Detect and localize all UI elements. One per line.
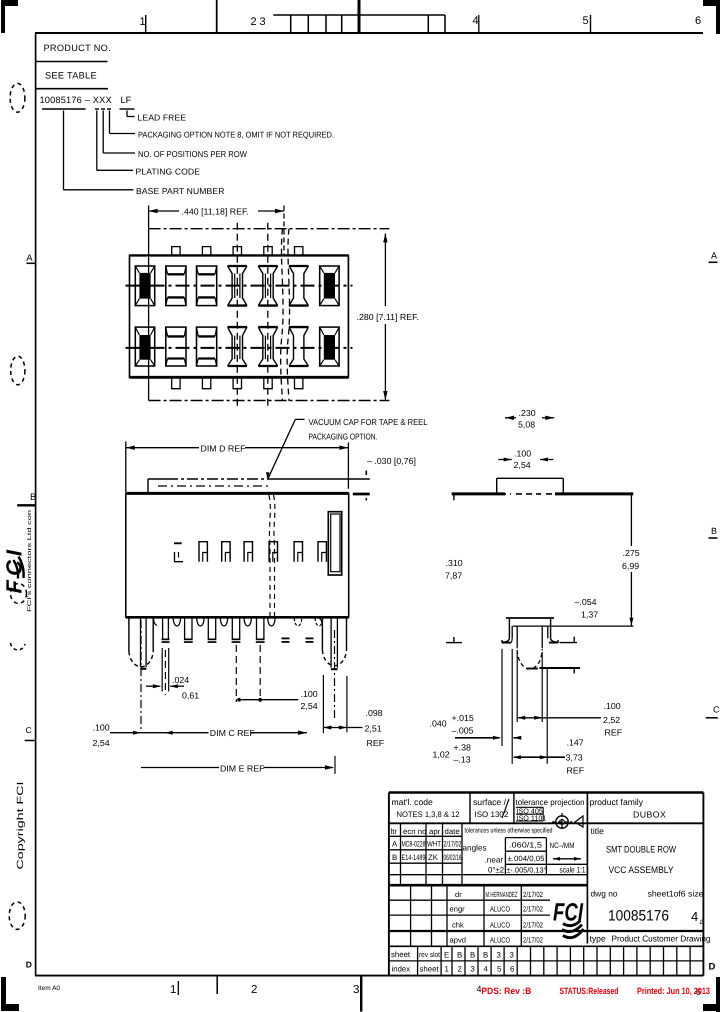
- svg-text:ecn no: ecn no: [403, 827, 427, 836]
- contact pad col 5 row 2: [258, 326, 277, 328]
- side view dim .024 arrows: [146, 685, 160, 687]
- side view scallop d: [319, 618, 322, 626]
- svg-text:1: 1: [140, 16, 146, 28]
- svg-text:E: E: [444, 951, 449, 960]
- product no heading underline: [36, 61, 108, 63]
- top view phantom cap outline: [149, 228, 390, 230]
- svg-text:6,99: 6,99: [622, 561, 639, 571]
- title block col line tolerance: [513, 793, 515, 824]
- corner crop mark top-left: [1, 0, 5, 33]
- svg-text:C: C: [713, 705, 720, 715]
- svg-text:dwg no: dwg no: [591, 889, 618, 899]
- svg-text:–.054: –.054: [575, 597, 597, 607]
- svg-text:MC8-0228: MC8-0228: [402, 840, 426, 849]
- top view row 2 centerline: [126, 347, 353, 349]
- leader base part number: [63, 111, 65, 190]
- top view dim .440 extension right: [283, 206, 285, 257]
- top view tail lug bottom col 5: [264, 377, 272, 388]
- svg-text:5: 5: [497, 965, 502, 974]
- side view dim D line: [126, 447, 199, 449]
- svg-text:B: B: [457, 951, 462, 960]
- svg-text:.280 [7.11] REF.: .280 [7.11] REF.: [357, 312, 419, 322]
- svg-text:ZK: ZK: [428, 853, 439, 862]
- svg-text:DUBOX: DUBOX: [633, 810, 666, 820]
- svg-text:10085176: 10085176: [608, 908, 669, 925]
- svg-text:E14-1489: E14-1489: [402, 853, 426, 862]
- top view body outline: [130, 255, 349, 377]
- svg-text:type: type: [590, 934, 606, 944]
- svg-text:.060/1,5: .060/1,5: [509, 841, 542, 850]
- svg-text:.100: .100: [301, 689, 318, 699]
- side view standoff scallop 4: [244, 618, 251, 626]
- top view break line right: [287, 229, 289, 401]
- svg-text:2,54: 2,54: [514, 460, 531, 470]
- side view dim .030 ticks: [365, 471, 367, 476]
- part number underline lf: [120, 108, 135, 110]
- end view solder foot right: [551, 638, 558, 642]
- leader positions per row: [102, 111, 104, 154]
- side view dim C line: [110, 732, 209, 734]
- svg-text:3,73: 3,73: [566, 753, 583, 763]
- svg-text:.100: .100: [604, 701, 621, 711]
- svg-text:6: 6: [695, 15, 701, 27]
- top view tail lug top col 3: [202, 247, 210, 256]
- side view pin 6: [256, 617, 258, 638]
- end view tower extension verticals: [501, 649, 503, 746]
- side view body bottom bold line: [126, 616, 349, 619]
- top view tail lug bottom col 6: [295, 377, 303, 388]
- side view standoff scallop 3: [220, 618, 227, 626]
- svg-text:– .030 [0,76]: – .030 [0,76]: [367, 456, 416, 466]
- svg-text:ltr: ltr: [391, 827, 398, 836]
- side view dim .098 line: [323, 727, 347, 729]
- svg-text:scale 1:1: scale 1:1: [560, 866, 586, 875]
- svg-text:2/17/02: 2/17/02: [523, 890, 543, 899]
- svg-text:.230: .230: [519, 408, 536, 418]
- svg-text:–.005: –.005: [452, 726, 474, 736]
- svg-text:VACUUM CAP FOR TAPE & REEL: VACUUM CAP FOR TAPE & REEL: [309, 417, 428, 427]
- right zone tick A: [709, 261, 718, 263]
- svg-text:+.38: +.38: [454, 743, 471, 753]
- svg-text:PACKAGING OPTION.: PACKAGING OPTION.: [309, 432, 378, 442]
- contact pad col 6 row 1: [289, 265, 308, 267]
- side view pin 3: [184, 617, 186, 638]
- svg-text:NO. OF POSITIONS PER ROW: NO. OF POSITIONS PER ROW: [138, 149, 248, 159]
- svg-text:tolerances unless otherwise sp: tolerances unless otherwise specified: [465, 827, 553, 835]
- svg-text:3: 3: [497, 951, 501, 960]
- part number underline xxx dashes: [95, 108, 99, 110]
- svg-text:B: B: [470, 951, 475, 960]
- svg-text:REF: REF: [367, 738, 385, 748]
- svg-text:2,52: 2,52: [603, 715, 620, 725]
- svg-text:.147: .147: [567, 738, 584, 748]
- side view body top bold extension: [353, 493, 370, 496]
- side view end latch outer: [328, 512, 341, 575]
- svg-text:ALUCO: ALUCO: [490, 921, 510, 930]
- end view right extension ticks: [559, 642, 577, 644]
- side view scallop b: [294, 618, 301, 626]
- svg-text:4: 4: [473, 15, 479, 27]
- svg-text:D: D: [26, 960, 32, 970]
- svg-text:index: index: [392, 965, 411, 974]
- top view dim .440 extension left: [148, 206, 150, 229]
- svg-text:1: 1: [170, 984, 176, 996]
- svg-text:VCC ASSEMBLY: VCC ASSEMBLY: [609, 864, 675, 875]
- svg-text:.near: .near: [485, 856, 504, 865]
- leader plating code: [96, 111, 98, 171]
- top zone tick 1: [145, 15, 147, 33]
- svg-text:D: D: [709, 962, 716, 973]
- svg-text:B: B: [392, 853, 397, 862]
- svg-text:3: 3: [510, 951, 514, 960]
- side view latch window 5: [269, 542, 277, 562]
- side view body outline: [126, 493, 349, 617]
- svg-text:7,87: 7,87: [445, 571, 462, 581]
- top view tail lug bottom col 4: [233, 377, 241, 388]
- svg-text:tolerance projection: tolerance projection: [516, 797, 585, 807]
- svg-text:LF: LF: [121, 95, 132, 105]
- svg-text:3: 3: [260, 16, 266, 28]
- side view standoff scallop 5: [268, 618, 275, 626]
- vacuum cap strip top line: [148, 478, 167, 480]
- side view end pin right (bullet): [321, 618, 323, 650]
- svg-text:chk: chk: [452, 921, 464, 930]
- top view body bottom bold line: [130, 376, 349, 379]
- top view dim .440 line: [149, 210, 179, 212]
- svg-text:ALUCO: ALUCO: [490, 905, 510, 914]
- end view flange left end tick: [453, 494, 455, 500]
- end view shoulder extension line: [513, 625, 634, 627]
- side view end pin left (bullet): [128, 617, 130, 651]
- top view pitch extension line col 5: [267, 223, 269, 407]
- side view standoff scallop 1: [173, 618, 180, 626]
- svg-text:title: title: [591, 826, 605, 836]
- svg-text:06/02/16: 06/02/16: [444, 853, 462, 862]
- vacuum cap strip left edge: [147, 479, 149, 492]
- svg-text:1: 1: [445, 965, 449, 974]
- side view hidden pin 8 marks: [306, 638, 314, 640]
- svg-text:LEAD FREE: LEAD FREE: [138, 113, 187, 123]
- sheet index table: [389, 960, 704, 962]
- svg-text:C: C: [26, 725, 32, 735]
- end view dim .230 arrows: [505, 417, 516, 419]
- svg-text:A: A: [711, 251, 717, 261]
- svg-text:4: 4: [691, 909, 698, 924]
- svg-text:A: A: [26, 253, 33, 264]
- top view tail lug bottom col 3: [202, 377, 210, 388]
- right zone tick C: [706, 717, 718, 719]
- contact pad col 3 row 2: [197, 327, 217, 366]
- title block col line product family: [586, 793, 588, 944]
- scale reference bar: [273, 14, 445, 16]
- top zone divider line: [216, 0, 218, 33]
- top border line: [35, 32, 703, 34]
- side view latch window 2: [199, 542, 207, 562]
- svg-text:mat'l. code: mat'l. code: [392, 797, 434, 807]
- contact pad col 6 row 2: [289, 326, 308, 328]
- title block outer border: [389, 791, 704, 794]
- svg-text:2/17/02: 2/17/02: [523, 905, 543, 914]
- side view pin 2 extension lines: [161, 648, 163, 691]
- left zone tick A: [27, 262, 36, 264]
- svg-text:2/17/02: 2/17/02: [523, 921, 543, 930]
- svg-text:+.015: +.015: [452, 713, 474, 723]
- svg-text:1,02: 1,02: [433, 750, 450, 760]
- svg-text:sheet1of6 size: sheet1of6 size: [648, 889, 704, 899]
- vacuum cap strip centerline: [158, 485, 272, 487]
- side view dim E line: [141, 767, 219, 769]
- svg-text:Copyright FCI: Copyright FCI: [15, 782, 25, 870]
- svg-text:rev slot: rev slot: [419, 950, 440, 959]
- side view dim D extension right: [347, 443, 349, 489]
- end view solder foot left: [502, 638, 509, 642]
- end view lower extension line right: [539, 667, 580, 669]
- svg-text:angles: angles: [463, 844, 487, 853]
- svg-text:NOTES 1,3,8 & 12: NOTES 1,3,8 & 12: [397, 810, 461, 819]
- title block row line 1: [389, 822, 704, 824]
- rev table grid: [400, 823, 402, 885]
- svg-text:1,37: 1,37: [581, 610, 598, 620]
- svg-text:apvd: apvd: [450, 936, 466, 945]
- svg-text:3: 3: [471, 965, 475, 974]
- end view vacuum cap bump: [496, 478, 498, 493]
- svg-text:.040: .040: [430, 719, 447, 729]
- svg-text:engr: engr: [450, 905, 466, 914]
- linear dimension arrow symbol: [553, 858, 581, 860]
- svg-text:0°±2: 0°±2: [488, 866, 504, 875]
- bottom zone thick divider: [360, 976, 362, 1012]
- svg-text:Product Customer Drawing: Product Customer Drawing: [612, 934, 711, 944]
- svg-text:surface /: surface /: [473, 797, 507, 807]
- contact pad col 4 row 2: [228, 326, 247, 328]
- top view break line left: [281, 229, 283, 401]
- svg-text:2: 2: [251, 16, 257, 28]
- svg-text:WHT: WHT: [427, 840, 441, 849]
- end view flange bold line: [452, 492, 505, 495]
- top view tail lug top col 6: [295, 247, 303, 256]
- left zone registration arc 4: [11, 643, 26, 650]
- bottom border line: [35, 975, 703, 977]
- leader lead free: [126, 111, 128, 117]
- top view tail lug top col 5: [264, 247, 272, 256]
- svg-text:2,54: 2,54: [301, 701, 318, 711]
- top view tail lug top col 4: [233, 247, 241, 256]
- end view dim .275 line: [630, 494, 632, 546]
- end view hidden contact cavity: [517, 649, 542, 668]
- see table underline: [36, 88, 108, 90]
- svg-text:dr: dr: [455, 890, 462, 899]
- svg-text:2: 2: [458, 965, 462, 974]
- svg-text:Item A0: Item A0: [38, 985, 60, 992]
- leader packaging option: [109, 111, 111, 134]
- svg-text:B: B: [483, 951, 488, 960]
- contact pad col 2 row 2: [166, 327, 186, 366]
- svg-text:DIM E REF: DIM E REF: [220, 763, 265, 773]
- side view break line: [269, 495, 270, 616]
- signoff grid: [410, 885, 412, 946]
- svg-text:B: B: [30, 492, 36, 503]
- corner crop mark bottom-left: [1, 977, 6, 1011]
- side view end pin right centerline: [334, 630, 336, 719]
- svg-text:.100: .100: [514, 449, 531, 459]
- side view dim .098 extension lines: [322, 675, 324, 733]
- side view latch window 3: [222, 542, 230, 562]
- side view scallop c: [315, 618, 322, 626]
- svg-text:.098: .098: [366, 708, 383, 718]
- svg-text:DIM D REF: DIM D REF: [201, 444, 247, 454]
- side view pin 5: [231, 617, 233, 638]
- svg-text:.275: .275: [623, 548, 640, 558]
- svg-text:6: 6: [510, 965, 514, 974]
- svg-text:–.13: –.13: [454, 755, 471, 765]
- side view body top bold line: [126, 492, 349, 495]
- left border line: [35, 33, 37, 976]
- end view dim .147 line: [514, 756, 565, 758]
- svg-text:±.004/0,05: ±.004/0,05: [508, 854, 545, 863]
- svg-text:2,51: 2,51: [365, 724, 382, 734]
- end view receptacle walls: [516, 626, 518, 648]
- top view row 1 centerline: [126, 285, 353, 287]
- side view latch window 7: [318, 542, 326, 562]
- contact pad col 1 row 1 (black): [135, 266, 154, 306]
- end view flange hidden dashes: [500, 493, 511, 495]
- svg-text:PDS: Rev :B: PDS: Rev :B: [481, 986, 531, 996]
- svg-text:DIM C REF: DIM C REF: [210, 728, 256, 738]
- side view pin 2: [162, 617, 164, 638]
- end view shoulder line: [506, 617, 554, 619]
- side view latch window 4: [244, 542, 252, 562]
- side view latch window 1: [174, 542, 182, 544]
- svg-text:REF: REF: [567, 766, 585, 776]
- side view pitch dim extension lines: [235, 645, 237, 702]
- svg-text:.440 [11,18] REF.: .440 [11,18] REF.: [182, 207, 249, 217]
- side view dim D extension left: [125, 442, 127, 493]
- svg-text:PLATING CODE: PLATING CODE: [136, 166, 201, 176]
- side view scallop a: [154, 618, 157, 626]
- svg-text:.310: .310: [446, 558, 463, 568]
- svg-text:M.HERNANDEZ: M.HERNANDEZ: [486, 890, 518, 899]
- contact pad col 1 row 2 (black): [135, 327, 154, 366]
- svg-text:a: a: [700, 917, 705, 926]
- side view end latch inner: [331, 514, 340, 572]
- svg-text:PRODUCT NO.: PRODUCT NO.: [44, 43, 111, 53]
- side view dim E extension right: [334, 756, 336, 774]
- contact pad col 4 row 1: [228, 265, 247, 267]
- svg-text:Printed: Jun 10, 2013: Printed: Jun 10, 2013: [637, 986, 710, 996]
- svg-text:2/17/02: 2/17/02: [444, 840, 462, 849]
- part number underline base: [42, 108, 86, 110]
- svg-text:ALUCO: ALUCO: [490, 936, 510, 945]
- left zone registration ellipse 2: [11, 356, 25, 385]
- side view hidden pin 7 marks: [282, 638, 290, 640]
- svg-text:BASE PART NUMBER: BASE PART NUMBER: [136, 186, 225, 196]
- svg-text:B: B: [711, 526, 717, 536]
- svg-text:.100: .100: [93, 723, 110, 733]
- top view tail lug bottom col 2: [172, 377, 180, 388]
- svg-text:10085176 – XXX: 10085176 – XXX: [40, 95, 112, 105]
- end view dim .100 arrows: [498, 459, 511, 461]
- top view pitch extension line col 4: [236, 223, 238, 407]
- top view tail lug top col 2: [172, 247, 180, 256]
- title block col line surface: [469, 793, 471, 824]
- left zone registration ellipse 3: [11, 584, 27, 604]
- svg-text:REF: REF: [605, 728, 623, 738]
- svg-text:NC–/MM: NC–/MM: [550, 841, 575, 850]
- end view left extension ticks: [446, 642, 462, 644]
- svg-text:2,54: 2,54: [93, 738, 110, 748]
- left zone registration ellipse 5: [9, 902, 25, 930]
- projection symbol: [556, 816, 568, 828]
- bottom zone tick 1: [177, 981, 179, 995]
- top zone thick divider: [358, 0, 361, 33]
- side view end pin left centerline: [140, 620, 142, 729]
- side view pin 4: [207, 617, 209, 638]
- contact pad col 7 row 2 (black): [320, 327, 339, 366]
- svg-text:SMT DOUBLE ROW: SMT DOUBLE ROW: [606, 844, 676, 855]
- right zone tick B: [709, 537, 718, 539]
- svg-text:STATUS:Released: STATUS:Released: [560, 986, 619, 996]
- svg-text:A: A: [392, 840, 398, 849]
- top zone tick 5: [590, 15, 592, 33]
- svg-text:2/17/02: 2/17/02: [523, 936, 543, 945]
- corner crop mark top-right: [703, 0, 720, 6]
- svg-text:date: date: [445, 827, 460, 836]
- svg-text:sheet: sheet: [391, 950, 411, 959]
- signoff table thick top line: [389, 884, 588, 887]
- svg-text:4: 4: [484, 965, 489, 974]
- svg-text:apr: apr: [429, 827, 441, 836]
- svg-text:2: 2: [251, 984, 257, 996]
- side view latch window 6: [294, 542, 302, 562]
- corner crop mark bottom-right: [716, 977, 720, 1012]
- svg-text:0,61: 0,61: [182, 691, 199, 701]
- left zone registration ellipse 1: [10, 83, 25, 112]
- svg-text:5,08: 5,08: [518, 420, 535, 430]
- svg-text:sheet: sheet: [420, 965, 440, 974]
- left zone tick C: [25, 740, 35, 742]
- end view dim .040 arrows: [455, 737, 500, 739]
- contact pad col 5 row 1: [258, 265, 277, 267]
- vacuum cap leader: [295, 418, 304, 420]
- svg-text:product family: product family: [590, 797, 644, 807]
- svg-text:SEE TABLE: SEE TABLE: [45, 71, 97, 81]
- svg-text:5: 5: [583, 15, 589, 27]
- tolerance value boxes: [505, 837, 546, 839]
- contact pad col 2 row 1: [166, 266, 186, 306]
- contact pad col 3 row 1: [197, 266, 217, 306]
- end view pin tower walls: [508, 619, 510, 638]
- bottom zone tick a: [216, 976, 218, 994]
- top view dim .280 line: [384, 233, 386, 306]
- contact pad col 7 row 1 (black): [320, 266, 339, 306]
- side view dim .100 pitch line: [236, 699, 298, 701]
- left zone tick B: [17, 504, 35, 506]
- top zone tick 4: [478, 15, 480, 33]
- end view dim .100 2.52 line: [517, 717, 601, 719]
- svg-text:PACKAGING OPTION NOTE 8, OMIT: PACKAGING OPTION NOTE 8, OMIT IF NOT REQ…: [138, 130, 334, 140]
- side view standoff scallop 2: [197, 618, 204, 626]
- top view body top bold line: [130, 254, 349, 256]
- svg-text:3: 3: [353, 984, 359, 996]
- svg-text:.024: .024: [172, 675, 189, 685]
- svg-text:±·.005/0,13°: ±·.005/0,13°: [507, 865, 547, 874]
